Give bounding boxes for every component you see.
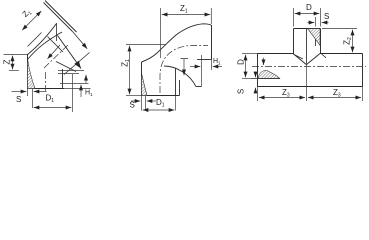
fig1 H1 upper arrow <box>85 75 87 83</box>
fig2 down arrow inner <box>183 59 185 76</box>
fig1 Z1 dim line <box>22 11 41 30</box>
fig1 dash-dot axis diagonal <box>44 45 68 68</box>
fig1 socket right inner edge <box>62 69 64 89</box>
fig2 inner arc <box>164 66 196 87</box>
fig3 run top left <box>258 53 294 55</box>
fig2 inner shoulder tick <box>181 58 189 60</box>
fig3 crotch V left <box>293 54 306 65</box>
fig2 hatch wedge on left wall <box>142 73 148 96</box>
fig1 crotch low line <box>56 62 76 72</box>
fig1 S arrow left <box>12 91 27 93</box>
fig3 hatch dome run left <box>258 70 280 78</box>
fig2 socket left outer edge <box>141 62 143 96</box>
fig1 Z dim line <box>12 56 14 70</box>
fig3 Z2 dim line <box>352 30 354 53</box>
fig1 inner arrow line <box>48 45 61 59</box>
fig1 axis ext line <box>58 70 84 72</box>
fig1 D1 ext right <box>72 74 74 112</box>
fig1 inner mid diagonal <box>48 37 64 53</box>
fig3 run right face <box>362 54 364 87</box>
fig3 run top right <box>320 53 363 55</box>
fig2 top Z1 dim line <box>162 14 210 16</box>
fig3 S left down arrow <box>263 58 265 65</box>
svg-text:D: D <box>237 59 246 65</box>
fig2 left Z1 dim line <box>129 46 131 95</box>
fig3 branch right inner edge <box>315 29 317 47</box>
fig2 top Z1 right ext <box>210 8 212 24</box>
fig2 socket B bottom edge <box>197 59 212 61</box>
fig3 D top dim line <box>295 13 320 15</box>
fig3 Z3 ext left <box>257 86 259 101</box>
fig2 bottom face <box>142 95 180 97</box>
svg-text:S: S <box>130 101 135 110</box>
fig2 H1 arrow right <box>213 66 222 68</box>
fig1 inner step vertical <box>56 23 58 41</box>
fig3 branch center line <box>306 29 308 64</box>
fig2 socket right inner edge <box>175 68 177 96</box>
fig3 S left arrow upper <box>255 72 257 78</box>
fig3 Z3 left dim line <box>259 97 305 99</box>
fig2 top Z1 left ext axis <box>160 8 162 58</box>
fig3 left D ext top <box>242 53 258 55</box>
fig3 Z3 right dim line <box>308 97 361 99</box>
fig1 upper cross line <box>28 33 42 47</box>
svg-text:S: S <box>324 12 329 21</box>
svg-text:D: D <box>306 3 312 12</box>
fig3 branch right outer edge <box>320 29 322 54</box>
fig3 branch left outer edge <box>293 29 295 54</box>
fig1 bottom face thin ext <box>64 88 91 90</box>
svg-text:S: S <box>16 95 21 104</box>
fig2 H1 left ext <box>201 55 203 87</box>
fig1 upper face 45deg <box>45 1 77 33</box>
fig2 S arrow left <box>131 100 140 102</box>
fig1 ext line top <box>4 54 28 56</box>
fig1 dash-dot axis vertical <box>45 72 47 91</box>
fig1 ext line mid <box>9 70 19 72</box>
fig2 H1 arrow left <box>190 66 200 68</box>
fig3 left D ext bottom <box>242 78 251 80</box>
fig3 dash-dot run axis <box>252 66 366 68</box>
fig1 band long edge arrow <box>58 36 82 69</box>
fig3 S top arrow left <box>308 22 315 24</box>
fig3 run left face <box>257 54 259 87</box>
fig2 D1 dim line <box>143 109 175 111</box>
fig2 S arrow right <box>147 100 156 102</box>
fig3 S top arrow right <box>322 22 329 24</box>
fig2 inner bottom line <box>196 86 202 88</box>
fig3 hatch wedge branch right wall <box>308 29 321 46</box>
fig3 inner crotch left <box>294 55 303 60</box>
fig3 Z3 ext mid <box>306 65 308 101</box>
fig1 H1 ext line lower <box>60 83 89 85</box>
fig3 D top left ext <box>293 8 295 27</box>
fig1 H1 arrow <box>80 85 82 97</box>
fig1 upper shoulder line <box>44 3 73 32</box>
fig2 H1 right ext <box>211 59 213 70</box>
fig3 left D dim line <box>245 55 247 78</box>
fig3 D top right ext <box>320 8 322 27</box>
fig1 D1 dim line <box>34 107 72 109</box>
fig1 H1 ext line upper <box>58 73 79 75</box>
fig2 D1 ext right <box>175 96 177 111</box>
fig1 bottom face <box>28 88 65 90</box>
fig1 crotch cross line <box>64 53 90 75</box>
svg-text:S: S <box>237 89 246 94</box>
fig1 S ext right <box>32 88 34 108</box>
fig2 right face <box>211 25 213 60</box>
fig2 S ext left <box>141 96 143 111</box>
fig2 left ext top <box>126 44 166 46</box>
fig2 socket A outer right edge <box>179 80 181 96</box>
fig2 S ext right <box>145 96 147 111</box>
fig1 S arrow right <box>34 91 47 93</box>
fig3 Z2 ext top <box>322 28 357 30</box>
fig3 crotch V right <box>306 54 320 65</box>
fig1 hatch wedge on left wall <box>28 59 36 89</box>
fig3 inner crotch right <box>320 53 326 58</box>
fig1 socket left outer edge <box>27 54 29 89</box>
svg-text:Z: Z <box>2 59 12 64</box>
fig2 outer arc <box>142 24 212 62</box>
fig1 inner arc <box>28 32 63 60</box>
fig1 outer arc <box>28 24 57 55</box>
fig3 run inner bottom line <box>251 78 280 80</box>
fig2 left ext bottom <box>126 95 141 97</box>
fig1 shoulder extension arrow <box>73 32 88 49</box>
fig2 dash-dot bend centerline <box>160 46 208 94</box>
fig3 S left arrow lower <box>255 88 257 93</box>
fig3 branch top face <box>294 28 321 30</box>
fig3 run bottom <box>258 86 363 88</box>
fig3 Z3 ext right <box>362 86 364 101</box>
fig3 S top ext <box>315 17 317 27</box>
fig1 S ext left <box>27 88 29 96</box>
